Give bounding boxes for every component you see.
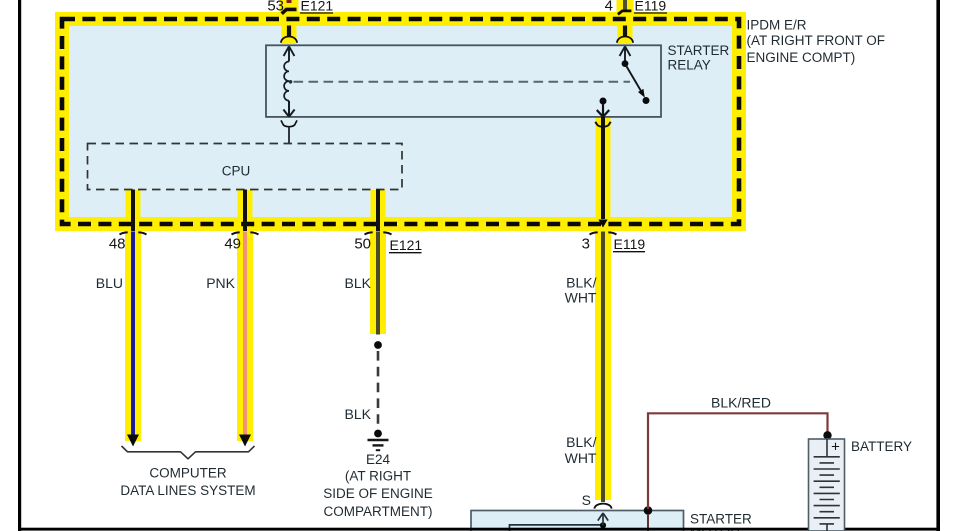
wire: BLK/RED (648, 413, 828, 509)
svg-text:3: 3 (582, 236, 590, 253)
svg-text:E121: E121 (390, 237, 423, 253)
svg-text:E119: E119 (614, 236, 646, 252)
ground symbol E24 (368, 439, 389, 442)
svg-text:E24: E24 (366, 452, 391, 467)
dot above ground (374, 430, 382, 438)
arrowhead PNK (239, 435, 251, 447)
connector arch below border at 4 (617, 36, 633, 42)
starter inner dot (600, 522, 606, 528)
dashed coil-switch link (294, 81, 631, 83)
starter arrow up (598, 513, 608, 525)
battery plates (814, 457, 840, 518)
junction dot top of ground branch (374, 341, 382, 349)
connector arch below border pin 49 (232, 232, 240, 234)
relay switch feed arrow up (620, 46, 631, 62)
relay switch pivot dot (622, 60, 629, 67)
connector arch below border pin 50 (365, 232, 373, 234)
yellow highlight: CPU pin 50 wire inside box (371, 190, 386, 217)
svg-text:WHT: WHT (565, 450, 597, 466)
yellow highlight: BLK/WHT wire pin 3 below border (595, 230, 611, 500)
wire: CPU pin49 black inside box (243, 190, 247, 232)
yellow highlight: CPU pin 49 wire inside box (238, 190, 253, 217)
battery terminal dot (823, 431, 831, 439)
wire: BLK/WHT core pin 3 (601, 232, 605, 503)
svg-text:E121: E121 (301, 0, 334, 14)
yellow highlight: CPU pin 48 wire inside box (126, 190, 141, 217)
brace computer data lines (122, 446, 255, 459)
starter motor box (471, 511, 684, 531)
wire: relay output black inside box (601, 117, 605, 219)
yellow highlight: BLU wire below border (125, 230, 141, 441)
coil tap dot (289, 80, 293, 84)
IPDM E/R box fill (64, 21, 736, 221)
connector arch below border pin 48 (120, 232, 128, 234)
relay coil arrow up (284, 46, 295, 61)
svg-text:WHT: WHT (565, 290, 597, 306)
wire: coil to CPU (288, 127, 290, 144)
svg-text:STARTER: STARTER (668, 43, 730, 58)
svg-text:48: 48 (109, 236, 126, 253)
svg-text:4: 4 (605, 0, 613, 15)
dashed BLK ground wire (377, 351, 380, 429)
relay switch output dot (600, 98, 607, 105)
starter relay box (266, 45, 661, 117)
svg-text:BLK/: BLK/ (566, 434, 596, 450)
CPU dashed box (88, 144, 403, 190)
yellow highlight: IPDM border (62, 19, 739, 224)
svg-text:+: + (831, 439, 840, 456)
connector hook above border at 4 (618, 11, 632, 15)
yellow highlight: wire stub above top border at 53/E121 (280, 0, 299, 13)
connector cup below relay (coil to CPU) (281, 120, 297, 126)
yellow highlight: BLK wire pin 50 below border (370, 230, 386, 334)
relay coil (284, 62, 289, 101)
svg-text:CPU: CPU (222, 164, 251, 179)
svg-text:49: 49 (224, 236, 241, 253)
svg-text:(AT RIGHT: (AT RIGHT (345, 469, 411, 484)
wire: black stub 4 below border (623, 26, 627, 37)
junction dot starter B terminal (644, 506, 653, 515)
relay switch arm end dot (643, 97, 650, 104)
connector hook above border at 53 (282, 9, 297, 13)
wire: BLU core (131, 232, 135, 436)
svg-text:(AT RIGHT FRONT OF: (AT RIGHT FRONT OF (747, 33, 886, 48)
svg-text:BATTERY: BATTERY (851, 439, 912, 454)
svg-text:COMPARTMENT): COMPARTMENT) (324, 504, 433, 519)
wire: BLK core pin 50 (376, 232, 380, 335)
relay switch arm (626, 65, 642, 92)
connector arch below border pin 3 (590, 232, 598, 234)
connector arch above starter S pin (595, 504, 612, 509)
svg-text:BLK/RED: BLK/RED (711, 395, 771, 411)
wire: CPU pin48 black inside box (131, 190, 135, 232)
svg-text:E119: E119 (635, 0, 667, 14)
IPDM dashed black border (62, 19, 739, 224)
svg-text:ENGINE COMPT): ENGINE COMPT) (747, 50, 856, 65)
svg-text:COMPUTER: COMPUTER (149, 466, 227, 481)
wire: olive stub above border at 4 (623, 0, 627, 10)
yellow highlight: wire stub above top border at 4/E119 (617, 0, 634, 13)
svg-text:IPDM E/R: IPDM E/R (747, 18, 807, 33)
svg-text:S: S (582, 492, 591, 508)
starter inner winding line (510, 525, 606, 531)
arrowhead at border pin 3 (598, 220, 607, 228)
svg-text:53: 53 (267, 0, 284, 15)
battery terminal lead (826, 439, 828, 457)
svg-text:SIDE OF ENGINE: SIDE OF ENGINE (323, 486, 433, 501)
connector cup below relay at output pin (595, 122, 610, 127)
yellow highlight: PNK wire below border (237, 230, 253, 441)
svg-text:BLK: BLK (345, 406, 372, 422)
wire: below starter junction (647, 514, 649, 531)
yellow highlight: stub border to relay switch pin (618, 25, 633, 44)
svg-text:PNK: PNK (206, 275, 235, 291)
svg-text:DATA LINES SYSTEM: DATA LINES SYSTEM (120, 483, 255, 498)
svg-text:BLU: BLU (96, 275, 123, 291)
yellow highlight: stub border to relay coil pin (282, 25, 297, 44)
svg-text:BLK/: BLK/ (566, 275, 596, 291)
yellow highlight: relay output to bottom border (596, 118, 611, 217)
bottom page border (18, 528, 939, 531)
connector arch below border at 53 (281, 36, 297, 42)
left page border (18, 0, 21, 531)
right page border (936, 0, 940, 531)
wire: red feed tip top at 53 (287, 0, 292, 3)
battery box (809, 439, 845, 531)
svg-text:STARTER: STARTER (690, 512, 752, 527)
relay coil arrow down (283, 101, 294, 117)
arrowhead BLU (127, 435, 139, 447)
wire: CPU pin50 black inside box (376, 190, 380, 232)
svg-text:RELAY: RELAY (668, 58, 711, 73)
wire: black stub 53 below border (287, 26, 291, 37)
svg-text:50: 50 (354, 236, 371, 253)
wire: PNK core (243, 232, 247, 436)
svg-text:BLK: BLK (345, 275, 372, 291)
relay switch output arrow down (597, 104, 609, 117)
